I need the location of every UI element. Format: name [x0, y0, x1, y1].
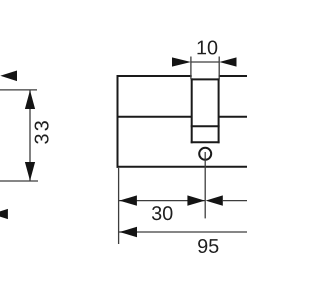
- dim 10 right extension line: [218, 57, 220, 80]
- dim 30 left arrow: [119, 195, 137, 205]
- dim 30/95 left extension line: [118, 168, 120, 244]
- cropped right dimension tail line: [223, 200, 247, 202]
- body middle line left segment: [117, 116, 192, 118]
- dim 33 top extension line: [0, 89, 37, 91]
- dim 33 arrow down: [25, 162, 35, 181]
- label 30: [152, 206, 173, 220]
- body middle line right segment: [219, 116, 247, 118]
- body top edge right segment: [219, 75, 247, 77]
- dim 33 dimension line: [29, 90, 31, 181]
- cut-off arrowhead top-left: [0, 71, 17, 82]
- dim 30 right arrow: [187, 195, 205, 205]
- body left edge: [117, 75, 119, 168]
- dim 33 bottom extension line: [0, 180, 38, 182]
- dim 10 right arrow: [219, 57, 236, 66]
- cam slot bottom edge: [191, 141, 220, 143]
- cam inner line: [191, 125, 220, 127]
- dim 10 left extension line: [190, 57, 192, 80]
- cam slot top edge: [191, 78, 220, 80]
- body top edge left segment: [117, 75, 192, 77]
- label 95: [198, 239, 218, 253]
- label 10: [198, 40, 218, 54]
- dim 30 dimension line: [119, 200, 205, 202]
- cut-off arrowhead bottom-left: [0, 209, 8, 219]
- center line below circle: [204, 152, 206, 218]
- dim 95 dimension line: [119, 231, 247, 233]
- body bottom edge: [117, 166, 248, 168]
- dim 95 left arrow: [119, 227, 137, 237]
- cropped right dimension arrow: [206, 195, 223, 205]
- label 33: [35, 121, 49, 144]
- dim 10 dimension line: [191, 61, 219, 63]
- dim 33 arrow up: [25, 90, 35, 109]
- cam slot left edge: [191, 78, 193, 143]
- screw hole circle: [199, 148, 211, 160]
- dim 10 left arrow: [172, 57, 191, 66]
- cam slot right edge: [218, 78, 220, 143]
